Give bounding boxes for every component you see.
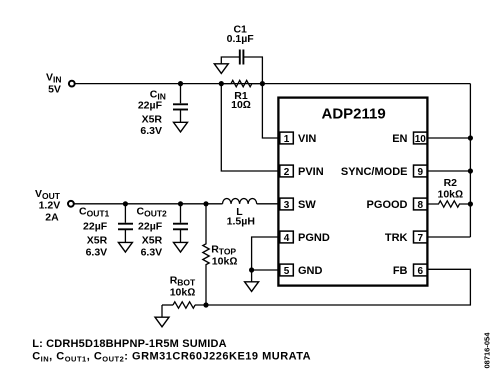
pin 4 box [280,231,294,243]
svg-text:5V: 5V [48,84,61,96]
svg-text:EN: EN [392,133,407,145]
svg-text:8: 8 [418,200,424,211]
svg-text:3: 3 [284,200,290,211]
svg-text:22µF: 22µF [138,100,163,112]
svg-text:FB: FB [393,265,408,277]
wire EN to pin 10 [428,137,470,139]
svg-text:ADP2119: ADP2119 [321,105,385,122]
resistor R1 [221,80,262,86]
pin 9 box [414,165,428,177]
svg-text:22µF: 22µF [83,221,108,233]
ground (RBOT) [155,317,169,327]
pin 5 box [280,264,294,276]
ground (CIN) [174,122,188,132]
pin 3 box [280,198,294,210]
svg-text:10kΩ: 10kΩ [438,188,464,200]
wire FB line right [195,269,470,305]
resistor R2 [428,201,470,207]
svg-text:R2: R2 [444,177,458,189]
pin 7 box [414,231,428,243]
resistor RTOP [203,204,209,305]
resistor RBOT [173,302,195,308]
svg-text:10kΩ: 10kΩ [212,256,238,268]
pin 8 box [414,198,428,210]
pin 10 box [414,132,428,144]
svg-text:PVIN: PVIN [298,166,324,178]
svg-text:SW: SW [298,199,316,211]
svg-text:1: 1 [284,134,290,145]
ground (PGND/GND) [245,282,259,292]
wire FB bottom line [162,304,173,306]
svg-text:TRK: TRK [385,232,408,244]
svg-text:6.3V: 6.3V [86,247,108,259]
svg-text:X5R: X5R [87,234,108,246]
wire VOUT line [75,203,223,205]
svg-text:10Ω: 10Ω [231,99,251,111]
pin 1 box [280,132,294,144]
svg-text:1.2V: 1.2V [39,200,61,212]
svg-text:6.3V: 6.3V [140,125,162,137]
svg-text:6: 6 [418,266,424,277]
svg-text:08716-054: 08716-054 [482,332,491,369]
svg-text:X5R: X5R [142,234,163,246]
ground (COUT1) [118,242,132,252]
svg-text:10kΩ: 10kΩ [170,287,196,299]
svg-text:7: 7 [418,233,424,244]
svg-text:VIN: VIN [298,133,316,145]
svg-text:10: 10 [415,134,427,145]
svg-text:4: 4 [284,233,290,244]
wire PGND [252,237,279,270]
svg-text:6.3V: 6.3V [141,247,163,259]
svg-text:2: 2 [284,167,290,178]
pin 6 box [414,264,428,276]
svg-text:SYNC/MODE: SYNC/MODE [341,166,408,178]
node VOUT terminal [68,201,74,207]
svg-text:GND: GND [298,265,323,277]
svg-text:5: 5 [284,266,290,277]
wire SYNC/MODE to pin 9 [428,170,470,172]
svg-text:2A: 2A [45,211,59,223]
wire GND [252,270,279,282]
ground (C1) [214,64,228,74]
svg-text:22µF: 22µF [138,221,163,233]
svg-text:X5R: X5R [142,113,163,125]
node VIN terminal [69,81,75,87]
capacitor COUT1 [124,204,126,243]
wire SW to pin 3 [257,203,279,205]
svg-text:1.5µH: 1.5µH [227,216,255,228]
ground (COUT2) [174,242,188,252]
pin 2 box [280,165,294,177]
wire TRK to pin 7 [428,236,470,238]
capacitor C1 [221,57,262,84]
wire RBOT ground lead [161,305,163,317]
capacitor CIN [180,84,182,123]
svg-text:0.1µF: 0.1µF [227,33,255,45]
svg-text:L: CDRH5D18BHPNP-1R5M SUMIDA: L: CDRH5D18BHPNP-1R5M SUMIDA [32,338,227,350]
op-amp U1 ADP2119 IC body [278,98,427,286]
wire right vertical VIN net [469,84,471,237]
wire PVIN drop [221,84,279,171]
wire top main line VIN net [76,83,471,85]
svg-text:PGND: PGND [298,232,330,244]
svg-text:PGOOD: PGOOD [367,199,408,211]
svg-text:9: 9 [418,167,424,178]
capacitor COUT2 [180,204,182,243]
node junction dots [178,81,183,86]
inductor L1 [223,198,257,203]
wire VIN pin drop [262,84,279,138]
